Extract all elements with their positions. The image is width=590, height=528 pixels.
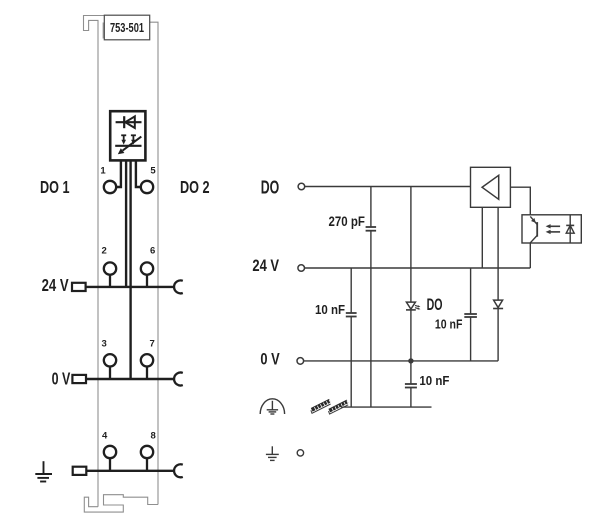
earth ground symbol — [35, 461, 52, 481]
label box 753-501 — [104, 15, 149, 40]
wire 24V line — [305, 267, 531, 269]
0V bus wire — [86, 378, 174, 380]
junction dot 0V — [408, 358, 413, 363]
svg-text:753-501: 753-501 — [110, 21, 144, 35]
module DIN-rail foot — [84, 495, 158, 512]
svg-text:DO 2: DO 2 — [180, 177, 210, 197]
node earth terminal circle — [297, 450, 303, 456]
wire DO line — [305, 186, 471, 188]
svg-text:DO: DO — [427, 295, 443, 314]
optocoupler U2 — [522, 215, 581, 243]
node 0V terminal — [260, 349, 303, 368]
svg-text:3: 3 — [102, 338, 107, 349]
node DO terminal — [261, 177, 305, 197]
capacitor C4 10 nF (24V to 0V) — [435, 268, 477, 361]
pin 5 — [141, 165, 157, 193]
module outline 753-501 — [84, 16, 159, 507]
diode D2 suppressor (24V to 0V) — [493, 268, 503, 361]
pin 3 — [102, 338, 117, 379]
pin 6 — [141, 246, 156, 287]
24V terminal lug — [72, 283, 86, 291]
svg-text:1: 1 — [100, 165, 106, 176]
earth jumper contact — [174, 464, 183, 477]
DIN rail symbol — [311, 400, 348, 414]
LED arrows symbol inside LED box — [115, 135, 141, 154]
wire buffer leg left — [481, 207, 483, 268]
earth terminal lug — [73, 467, 87, 475]
light arrows in opto — [546, 224, 561, 234]
svg-text:10 nF: 10 nF — [419, 373, 449, 388]
svg-text:10 nF: 10 nF — [315, 302, 345, 317]
earth bus wire — [86, 470, 174, 472]
svg-text:4: 4 — [102, 430, 108, 441]
pin 4 — [102, 430, 116, 471]
svg-text:DO 1: DO 1 — [40, 177, 70, 197]
pin 2 — [102, 246, 117, 287]
wire leg pin5 from LED box — [136, 162, 141, 188]
capacitor C1 270 pF — [329, 187, 377, 408]
wire FE rail line — [341, 406, 432, 408]
diode D-top inside LED box — [116, 116, 142, 128]
phototransistor Q1 in opto — [530, 216, 537, 242]
pin 1 — [100, 165, 116, 193]
wire buffer output to opto — [510, 187, 530, 217]
svg-text:10 nF: 10 nF — [435, 316, 463, 331]
wire leg to 0V bus — [129, 162, 131, 380]
24V jumper contact — [174, 280, 183, 293]
svg-text:8: 8 — [151, 430, 156, 441]
svg-text:7: 7 — [150, 338, 155, 349]
svg-text:0 V: 0 V — [52, 368, 71, 388]
pin 8 — [141, 430, 156, 471]
wire opto emitter to 24V line — [529, 242, 531, 268]
LED indicator box U1 — [110, 111, 145, 160]
node 24V terminal — [252, 256, 304, 275]
LED DO indicator — [406, 295, 443, 314]
functional earth symbol with arc — [260, 399, 284, 414]
svg-text:0 V: 0 V — [260, 349, 280, 368]
earth symbol bottom — [266, 446, 279, 460]
wire leg pin1 from LED box — [116, 162, 121, 188]
svg-text:24 V: 24 V — [42, 275, 69, 295]
wire LED to 0V node — [410, 310, 412, 384]
wire 0V line — [304, 360, 499, 362]
0V terminal lug — [72, 375, 86, 383]
pin 7 — [141, 338, 155, 379]
diode D3 in opto — [566, 215, 574, 243]
svg-text:5: 5 — [150, 165, 156, 176]
wire DO dropper — [410, 187, 412, 303]
svg-text:6: 6 — [150, 246, 155, 257]
capacitor C3 10 nF (0V to rail) — [405, 373, 450, 407]
wire buffer leg right — [497, 207, 499, 268]
svg-text:2: 2 — [102, 246, 107, 257]
op-amp buffer A1 — [471, 167, 511, 207]
svg-text:DO: DO — [261, 177, 280, 197]
svg-text:24 V: 24 V — [252, 256, 279, 275]
svg-text:270 pF: 270 pF — [329, 214, 365, 229]
0V jumper contact — [174, 373, 183, 386]
wire leg to 24V bus — [125, 162, 127, 287]
capacitor C2 10 nF (24V to rail) — [315, 268, 357, 407]
24V bus wire — [86, 286, 175, 288]
